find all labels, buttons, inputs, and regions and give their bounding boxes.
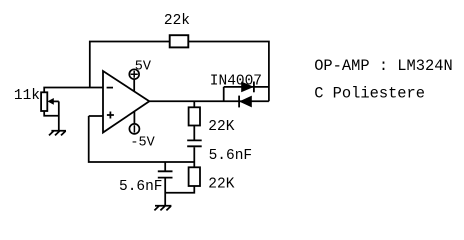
wire left vertical + bottom horizontal xyxy=(89,116,195,162)
wire feedback top: from node A up, across to R-fb left xyxy=(90,42,170,88)
capacitor C1 5.6nF plates xyxy=(187,140,202,146)
resistor 22K lower xyxy=(189,167,200,186)
wire -5V stem xyxy=(133,112,135,124)
wire diode stub vertical xyxy=(223,87,225,101)
resistor 11k potentiometer body xyxy=(41,92,47,111)
op-amp U1 triangle xyxy=(103,71,149,133)
svg-text:OP-AMP : LM324N: OP-AMP : LM324N xyxy=(314,57,453,75)
diode D2 cathode bar xyxy=(238,96,240,108)
diode D1 IN4007 cathode bar xyxy=(253,82,255,93)
svg-text:C Poliestere: C Poliestere xyxy=(314,85,425,103)
ground (pot) xyxy=(49,131,66,136)
resistor 22K upper xyxy=(189,107,200,125)
svg-text:IN4007: IN4007 xyxy=(210,74,262,90)
svg-text:22K: 22K xyxy=(208,176,234,192)
op-amp plus sign xyxy=(107,112,114,119)
diode D2 triangle xyxy=(239,96,252,108)
power -5V circle xyxy=(129,124,139,134)
svg-text:5.6nF: 5.6nF xyxy=(209,148,253,164)
resistor 22k (feedback) xyxy=(170,35,189,47)
svg-text:5.6nF: 5.6nF xyxy=(119,179,163,195)
wire inverting input: pot top stem + horizontal to op-amp xyxy=(44,88,103,93)
svg-text:11k: 11k xyxy=(14,88,40,104)
wire pot bottom stem xyxy=(44,111,59,116)
capacitor C2 5.6nF plates xyxy=(158,171,173,177)
wire wiper horizontal xyxy=(53,100,59,102)
svg-text:22K: 22K xyxy=(208,119,234,135)
pot wiper arrowhead xyxy=(47,98,53,105)
wire branch down from output node xyxy=(193,101,195,107)
svg-text:-5V: -5V xyxy=(130,136,155,151)
wire +5V stem xyxy=(133,79,135,91)
wire C1 to R2 xyxy=(193,147,195,167)
svg-text:22k: 22k xyxy=(164,13,190,29)
wire R-fb right to top-right corner, down to output node xyxy=(188,42,269,102)
wire C2 bottom to ground xyxy=(164,179,166,206)
wire R to C1 xyxy=(193,126,195,140)
wire R2 bottom left to cap node xyxy=(165,186,194,193)
wire pot wiper down to ground xyxy=(58,101,60,130)
wire C2 top stem xyxy=(164,162,166,171)
wire diode upper branch xyxy=(224,86,269,88)
ground (bottom) xyxy=(154,206,171,211)
svg-text:5V: 5V xyxy=(135,60,152,75)
diode D1 triangle xyxy=(241,82,254,93)
power +5V circle xyxy=(129,69,139,79)
op-amp minus sign xyxy=(107,87,113,89)
wire op-amp output xyxy=(149,100,269,102)
wire non-inverting input xyxy=(89,115,103,117)
